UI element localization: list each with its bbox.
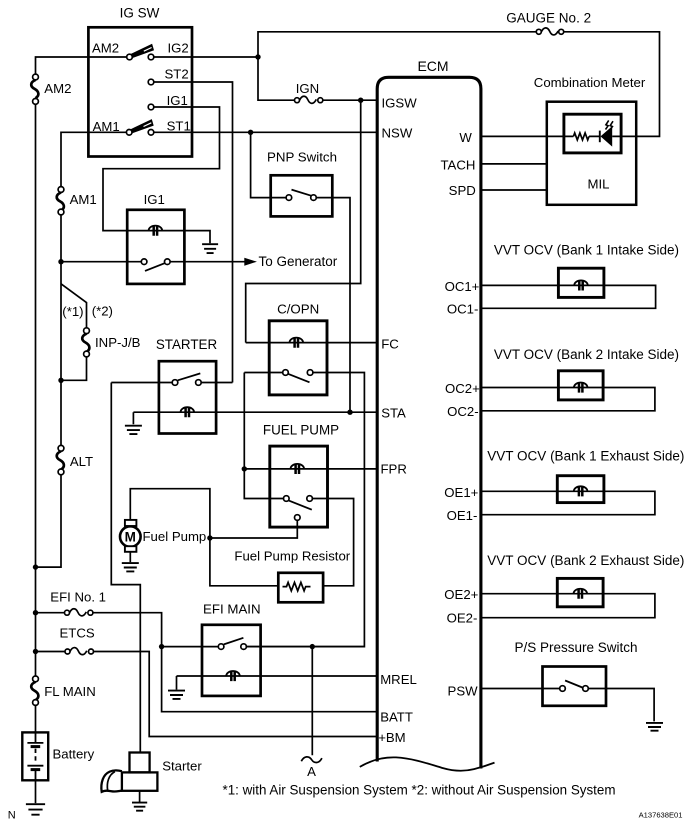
svg-text:FC: FC (381, 336, 399, 351)
ground fuel pump motor (122, 563, 139, 571)
svg-text:(*2): (*2) (92, 304, 113, 319)
label ST2 terminal (165, 66, 189, 81)
ECM main box rounded (377, 77, 481, 768)
svg-text:Fuel Pump: Fuel Pump (143, 529, 207, 544)
wire (*2) branch through INP-J/B (61, 284, 87, 381)
IG SW contact IG2 (148, 54, 154, 60)
VVT OCV bank2 exhaust box (557, 578, 603, 606)
label VVT OCV bank2 intake (494, 347, 679, 362)
wire A branch down from EFI MAIN switch line (311, 647, 313, 756)
svg-text:PSW: PSW (448, 683, 479, 698)
junction dot PNP to STA (347, 410, 352, 415)
label VVT OCV bank2 exhaust (487, 553, 684, 568)
svg-text:OE1-: OE1- (447, 508, 478, 523)
label IG1 terminal (167, 93, 188, 108)
junction dot *1 *2 rejoin (58, 378, 63, 383)
wire battery to ground (35, 780, 37, 803)
wire OC1 loop through VVT OCV bank1 intake (481, 285, 656, 308)
wire ECM SPD to combination meter (481, 189, 547, 191)
MIL resistor zigzag (573, 133, 589, 140)
pin OE2- (447, 611, 478, 626)
pin SPD (449, 183, 476, 198)
starter motor body (101, 753, 157, 792)
battery internal plates (27, 732, 43, 780)
svg-text:OC2-: OC2- (447, 404, 479, 419)
svg-text:Starter: Starter (162, 758, 202, 773)
label FL MAIN (44, 684, 96, 699)
solenoid coil OCV bank2 intake (574, 383, 588, 393)
solenoid coil OCV bank2 exhaust (574, 589, 588, 599)
wire To Generator line from AM1 rail through IG1 relay switch (61, 261, 245, 263)
wire ST2 net down to STARTER switch (151, 82, 233, 383)
label INP-J/B (95, 335, 141, 350)
label C/OPN (277, 301, 319, 316)
wire fuel pump relay third contact down to fuel pump node (210, 520, 297, 538)
Battery box (22, 732, 48, 780)
svg-text:W: W (459, 130, 472, 145)
pin STA (381, 405, 406, 420)
wire OE2 loop through VVT OCV bank2 exhaust (481, 594, 655, 618)
svg-text:PNP Switch: PNP Switch (267, 149, 337, 164)
wire AM1 net: IG SW AM1 contact down left rail with AM1 fuse (36, 132, 130, 567)
label To Generator (259, 254, 338, 269)
PNP switch contacts and lever (286, 190, 316, 201)
pin PSW (448, 683, 479, 698)
svg-text:OC1+: OC1+ (445, 279, 480, 294)
pin OE2+ (444, 587, 478, 602)
wire EFI MAIN switch line (162, 646, 365, 648)
svg-text:EFI MAIN: EFI MAIN (203, 602, 261, 617)
svg-text:N: N (8, 809, 16, 821)
svg-text:BATT: BATT (380, 710, 413, 725)
label AM2 terminal (92, 40, 119, 55)
svg-text:ST1: ST1 (167, 119, 191, 134)
relay FUEL PUMP box (270, 446, 328, 527)
svg-text:IG1: IG1 (167, 93, 188, 108)
pin TACH (440, 157, 475, 172)
pin OC1- (447, 302, 479, 317)
label Fuel Pump (143, 529, 207, 544)
P/S Pressure Switch box (543, 667, 607, 706)
ECM torn wavy bottom edge (360, 757, 495, 770)
IG SW contact ST1 (148, 130, 154, 136)
ground STARTER relay (125, 426, 142, 434)
junction dot EFI No.1 rail (33, 610, 38, 615)
svg-text:FL MAIN: FL MAIN (44, 684, 96, 699)
svg-text:OC2+: OC2+ (445, 381, 480, 396)
relay IG1 box (127, 210, 184, 284)
svg-text:VVT OCV (Bank 2 Intake Side): VVT OCV (Bank 2 Intake Side) (494, 347, 679, 362)
label VVT OCV bank1 intake (494, 242, 679, 257)
label IG SW (120, 6, 160, 21)
label P/S Pressure Switch (515, 640, 638, 655)
relay C/OPN box (269, 321, 327, 395)
label relay IG1 (144, 192, 165, 207)
svg-text:(*1): (*1) (62, 304, 83, 319)
svg-text:Fuel Pump Resistor: Fuel Pump Resistor (234, 548, 350, 563)
fusible link INP-J/B (82, 328, 89, 357)
FUEL PUMP relay switch with third contact (284, 496, 313, 521)
fuse GAUGE No.2 (536, 28, 563, 35)
label STARTER (156, 337, 218, 352)
wire AM2 net: IG SW AM2 contact to main left rail and battery (36, 57, 130, 732)
label GAUGE No. 2 (506, 11, 591, 26)
IG SW contact AM2 (127, 54, 133, 60)
label PNP Switch (267, 149, 337, 164)
IG SW AM2-IG2 switch lever (131, 44, 154, 58)
PNP Switch box (271, 175, 333, 216)
pin FC (381, 336, 399, 351)
wire fuel pump motor ground stem (129, 552, 131, 562)
pin MREL (380, 672, 417, 687)
svg-text:IG SW: IG SW (120, 6, 160, 21)
footnote air suspension (223, 782, 616, 797)
svg-text:STA: STA (381, 405, 406, 420)
label Starter (162, 758, 202, 773)
label ST1 terminal (167, 119, 191, 134)
svg-text:OE2+: OE2+ (444, 587, 478, 602)
label AM1 terminal (93, 119, 120, 134)
fuse ETCS (65, 648, 94, 655)
pin OC2+ (445, 381, 480, 396)
svg-text:A137638E01: A137638E01 (639, 810, 683, 819)
ground P/S pressure switch (646, 723, 663, 731)
junction dot A branch (310, 644, 315, 649)
svg-text:GAUGE No. 2: GAUGE No. 2 (506, 11, 591, 26)
wire C/OPN switch left branch down to fuel pump relay (244, 373, 283, 499)
label (*2) (92, 304, 113, 319)
EFI MAIN relay switch (218, 638, 246, 650)
wire NSW branch down to PNP switch and to STA junction (251, 132, 350, 412)
svg-text:EFI No. 1: EFI No. 1 (50, 589, 106, 604)
junction dot IGN to IGSW (358, 98, 363, 103)
relay STARTER box (159, 361, 216, 433)
svg-text:SPD: SPD (449, 183, 476, 198)
relay coil STARTER (181, 407, 195, 417)
fusible link ALT (57, 445, 64, 474)
svg-text:ECM: ECM (417, 58, 448, 74)
relay EFI MAIN box (202, 625, 261, 696)
relay coil IG1 (149, 226, 163, 236)
fusible link AM1 (57, 187, 64, 215)
STARTER relay switch (172, 373, 201, 385)
junction dot fuel pump node (207, 535, 212, 540)
label EFI MAIN (203, 602, 261, 617)
svg-text:IGN: IGN (296, 81, 319, 96)
svg-text:VVT OCV (Bank 1 Exhaust Side): VVT OCV (Bank 1 Exhaust Side) (487, 448, 684, 463)
svg-text:INP-J/B: INP-J/B (95, 335, 141, 350)
label fusible link AM1 (70, 192, 97, 207)
label VVT OCV bank1 exhaust (487, 448, 684, 463)
svg-text:Battery: Battery (53, 746, 95, 761)
solenoid coil OCV bank1 intake (574, 280, 588, 290)
wire FPR line through FUEL PUMP relay coil (244, 468, 377, 470)
svg-text:M: M (125, 530, 136, 545)
node label A (307, 764, 316, 779)
pin W (459, 130, 472, 145)
pin FPR (381, 462, 407, 477)
wire ECM W to MIL lamp (481, 135, 622, 137)
svg-text:NSW: NSW (382, 126, 413, 141)
ground EFI MAIN relay (168, 691, 185, 699)
wire EFI MAIN coil line to ECM MREL with ground stem (177, 676, 378, 690)
wire IG2 to GAUGE No.2 line and down to MIL (151, 32, 660, 137)
wire FUEL PUMP relay switch to fuel pump resistor right side (312, 499, 353, 586)
svg-text:AM2: AM2 (92, 40, 119, 55)
wire ETCS net to ECM +BM (36, 652, 378, 737)
svg-text:TACH: TACH (440, 157, 475, 172)
MIL lamp box (564, 114, 621, 153)
To Generator arrowhead (244, 258, 257, 266)
svg-text:MREL: MREL (380, 672, 417, 687)
svg-text:OE2-: OE2- (447, 611, 478, 626)
svg-text:+BM: +BM (378, 730, 405, 745)
junction dot AM1 to generator line (58, 259, 63, 264)
wire IGN net down to C/OPN coil and ECM FC (246, 100, 378, 342)
IG1 relay switch (141, 259, 170, 271)
junction dot NSW branch (248, 130, 253, 135)
svg-text:OE1+: OE1+ (444, 485, 478, 500)
svg-text:P/S Pressure Switch: P/S Pressure Switch (515, 640, 638, 655)
fusible link FL MAIN (31, 676, 38, 705)
relay coil C/OPN (290, 338, 304, 348)
pin OC2- (447, 404, 479, 419)
svg-text:VVT OCV (Bank 2 Exhaust Side): VVT OCV (Bank 2 Exhaust Side) (487, 553, 684, 568)
label Fuel Pump Resistor (234, 548, 350, 563)
wire STA line through STARTER coil to ECM STA (133, 412, 377, 424)
pin NSW (382, 126, 413, 141)
wire starter motor ground stem (139, 791, 141, 802)
MIL LED diode (600, 126, 612, 146)
node A tilde mark (301, 757, 322, 763)
svg-text:OC1-: OC1- (447, 302, 479, 317)
junction dot ALT joins main rail (33, 564, 38, 569)
svg-text:AM1: AM1 (93, 119, 120, 134)
wire IG1 net from IG SW to IG1 relay coil and ground (103, 107, 220, 243)
svg-text:VVT OCV (Bank 1 Intake Side): VVT OCV (Bank 1 Intake Side) (494, 242, 679, 257)
ground IG1 relay (202, 244, 218, 253)
wire STARTER switch line down to starter motor (111, 383, 232, 754)
svg-text:AM1: AM1 (70, 192, 97, 207)
ground battery (26, 804, 45, 815)
pin OE1+ (444, 485, 478, 500)
pin OE1- (447, 508, 478, 523)
pin BATT (380, 710, 413, 725)
VVT OCV bank1 intake box (558, 268, 604, 297)
svg-text:IG2: IG2 (168, 40, 189, 55)
junction dot EFI MAIN switch input (159, 644, 164, 649)
svg-text:*1: with Air Suspension System: *1: with Air Suspension System *2: witho… (223, 782, 616, 797)
fuel pump motor with brushes (120, 520, 141, 552)
wire fuel pump node loop to motor and to resistor left side (130, 489, 278, 586)
IG SW contact IG1 (148, 104, 154, 110)
pin IGSW (382, 95, 418, 110)
label ETCS (60, 625, 95, 640)
wire NSW net: ST1 to ECM NSW (151, 131, 378, 133)
label ECM (417, 58, 448, 74)
Fuel Pump Resistor box (278, 573, 323, 603)
label N node (8, 809, 16, 821)
Combination Meter box (547, 102, 636, 205)
label FUEL PUMP (263, 422, 339, 437)
wire C/OPN switch right to EFI MAIN switch line (246, 373, 364, 647)
junction dot FPR coil line (242, 466, 247, 471)
svg-text:ETCS: ETCS (60, 625, 95, 640)
svg-text:C/OPN: C/OPN (277, 301, 319, 316)
svg-text:FPR: FPR (381, 462, 407, 477)
wire IGN fuse branch to ECM IGSW (258, 57, 378, 100)
solenoid coil OCV bank1 exhaust (574, 486, 588, 496)
P/S pressure switch contacts and lever (560, 681, 589, 692)
C/OPN relay switch (283, 370, 313, 383)
svg-text:A: A (307, 764, 316, 779)
label EFI No. 1 (50, 589, 106, 604)
wire OE1 loop through VVT OCV bank1 exhaust (481, 491, 655, 514)
fuel pump motor M label (125, 530, 136, 545)
wire ECM TACH to combination meter (481, 163, 547, 165)
svg-text:Combination Meter: Combination Meter (534, 75, 646, 90)
label IGN (296, 81, 319, 96)
label fusible link AM2 (44, 81, 71, 96)
svg-text:IG1: IG1 (144, 192, 165, 207)
MIL LED flash arrows (606, 120, 613, 130)
wire OC2 loop through VVT OCV bank2 intake (481, 388, 655, 411)
svg-text:IGSW: IGSW (382, 95, 418, 110)
label MIL (588, 176, 610, 191)
ignition switch IG SW box (88, 27, 192, 156)
fusible link AM2 (31, 74, 38, 104)
wire ECM PSW through P/S pressure switch to ground (481, 689, 654, 722)
label IG2 terminal (168, 40, 189, 55)
resistor zigzag inside fuel pump resistor (283, 582, 311, 590)
svg-text:ST2: ST2 (165, 66, 189, 81)
svg-text:To Generator: To Generator (259, 254, 338, 269)
label Battery (53, 746, 95, 761)
fuse EFI No.1 (65, 609, 93, 616)
svg-text:STARTER: STARTER (156, 337, 218, 352)
VVT OCV bank2 intake box (558, 371, 603, 400)
label (*1) (62, 304, 83, 319)
label Combination Meter (534, 75, 646, 90)
IG SW contact AM1 (126, 130, 132, 136)
ground starter motor (132, 803, 147, 811)
fuse IGN (295, 96, 323, 103)
svg-text:FUEL PUMP: FUEL PUMP (263, 422, 339, 437)
IG SW contact ST2 (148, 79, 154, 85)
VVT OCV bank1 exhaust box (557, 476, 604, 503)
svg-text:MIL: MIL (588, 176, 610, 191)
wire EFI No.1 net to EFI MAIN switch and ECM BATT (36, 613, 378, 712)
junction dot IG2 gauge branch (255, 54, 260, 59)
svg-text:ALT: ALT (70, 454, 93, 469)
document number A137638E01 (639, 810, 683, 819)
relay coil FUEL PUMP (291, 464, 305, 474)
label ALT (70, 454, 93, 469)
pin OC1+ (445, 279, 480, 294)
junction dot ETCS rail (33, 649, 38, 654)
relay coil EFI MAIN (226, 671, 240, 681)
IG SW AM1-ST1 switch lever (131, 119, 154, 133)
pin +BM (378, 730, 405, 745)
svg-text:AM2: AM2 (44, 81, 71, 96)
